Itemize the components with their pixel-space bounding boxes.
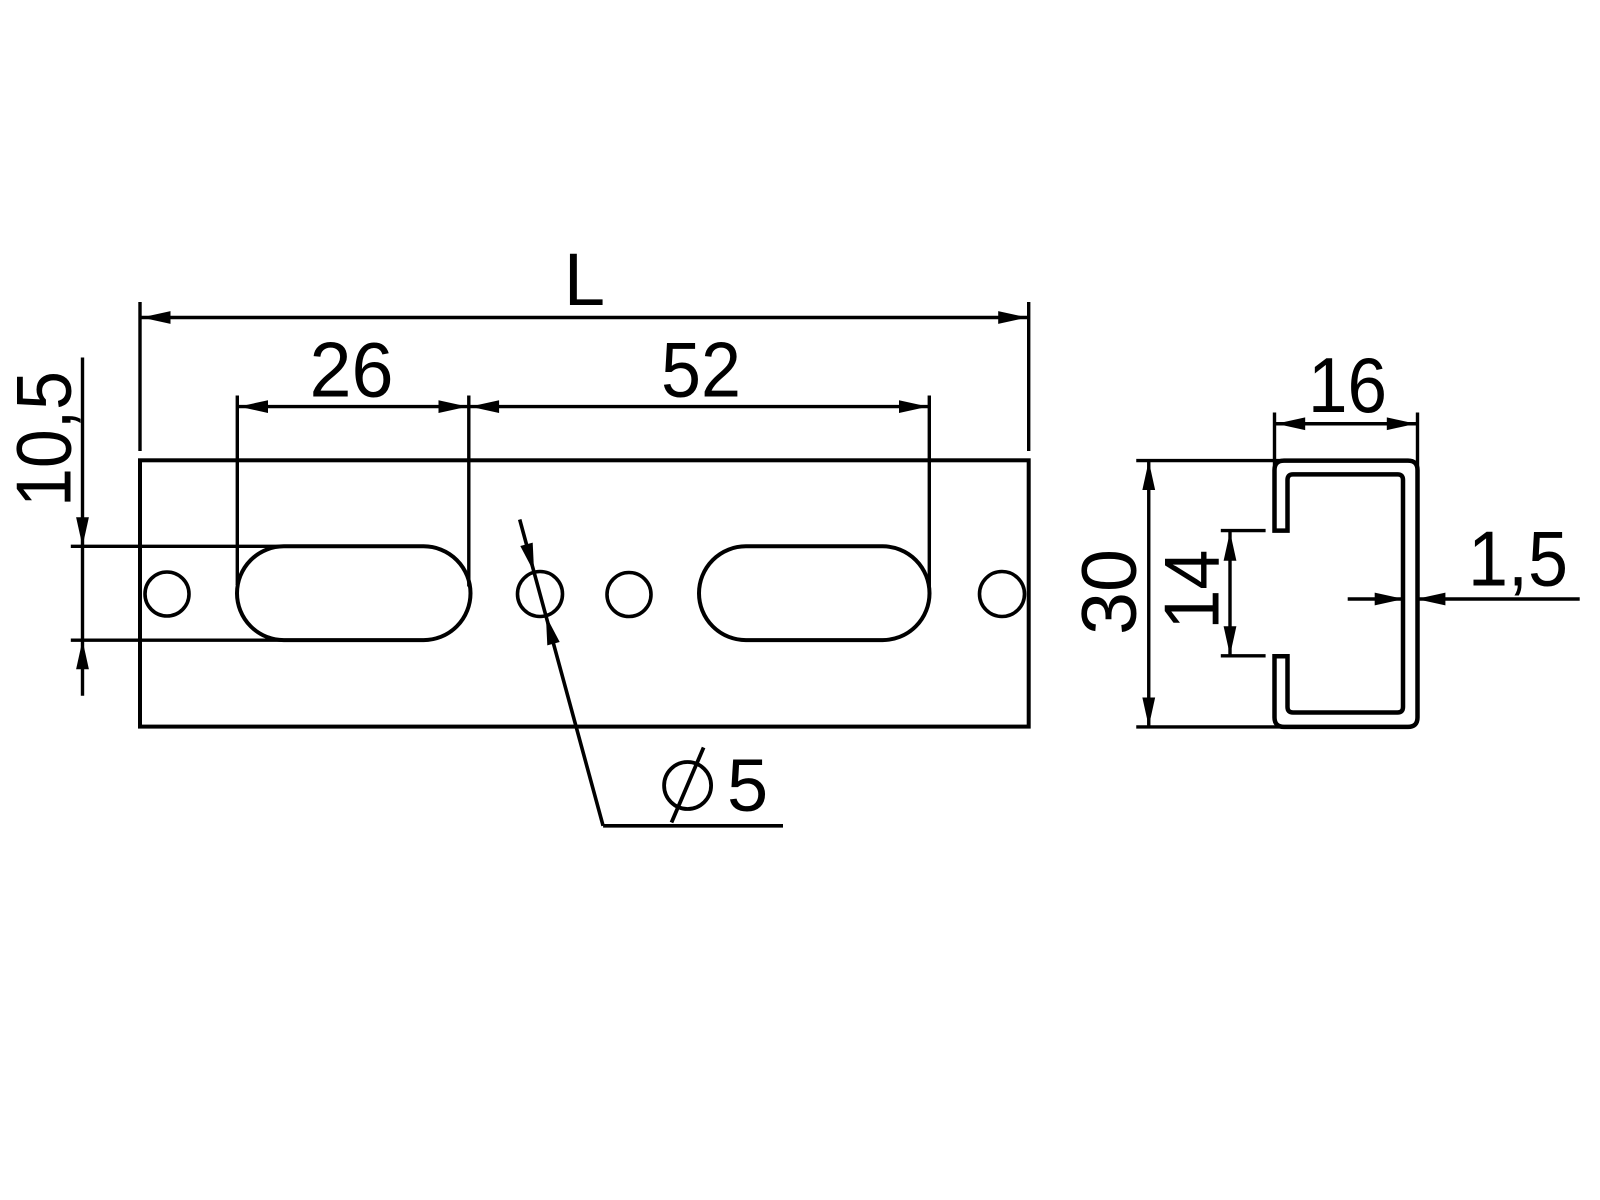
dimension 52: right extension line <box>928 396 931 587</box>
section view: C-channel profile outline <box>1275 461 1418 727</box>
hole, round, right end <box>980 572 1025 617</box>
dimension 30: bottom extension line <box>1136 725 1290 728</box>
hole, round, left end <box>145 572 189 616</box>
dimension 14: bottom extension line <box>1221 654 1266 657</box>
dimension 26: right arrowhead <box>439 400 468 413</box>
dimension 26: left extension line <box>236 396 239 586</box>
svg-text:16: 16 <box>1308 341 1387 429</box>
slot 1 (26 mm obround) <box>237 546 471 640</box>
dimension L: right arrowhead <box>998 311 1027 324</box>
diameter 5 callout: leader line through hole <box>520 520 603 826</box>
dimension L: left extension line <box>138 302 141 451</box>
dimension 30: lower arrowhead <box>1142 698 1155 727</box>
dimension 30: top extension line <box>1136 459 1289 462</box>
dimension 1,5: left arrowhead <box>1375 593 1404 606</box>
dimension 1,5: right arrowhead <box>1416 593 1445 606</box>
diameter 5 callout: diameter symbol circle <box>664 762 711 809</box>
dimension 10,5: bottom extension line <box>71 639 284 642</box>
front view: rail body outline <box>140 460 1029 726</box>
slot 2 (obround) <box>699 546 930 640</box>
dimension 10,5: lower arrowhead <box>76 640 89 669</box>
dimension 14: lower arrowhead <box>1224 626 1237 655</box>
diameter 5 callout: upper arrowhead <box>520 543 534 573</box>
dimension 52: left arrowhead <box>470 400 499 413</box>
diameter 5 callout: horizontal landing line <box>603 824 783 828</box>
dimension 16: left extension line <box>1273 413 1276 473</box>
dimension 10,5: dimension line <box>81 358 84 696</box>
dimension 26: dimension line <box>239 405 469 408</box>
diameter 5 callout: lower arrowhead <box>546 616 560 646</box>
dimension L: left arrowhead <box>142 311 171 324</box>
dimension 16: dimension line <box>1276 422 1416 425</box>
hole, round, middle <box>607 573 651 617</box>
svg-text:5: 5 <box>727 744 768 827</box>
dimension 14: dimension line <box>1228 532 1231 656</box>
dimension 52: dimension line <box>469 405 928 408</box>
dimension 1,5: outer tail line <box>1417 597 1580 600</box>
dimension L: dimension line <box>142 316 1028 319</box>
dimension 10,5: upper arrowhead <box>76 517 89 546</box>
dimension 10,5: top extension line <box>71 545 284 548</box>
svg-text:10,5: 10,5 <box>0 371 88 507</box>
dimension 14: top extension line <box>1221 529 1266 532</box>
svg-text:1,5: 1,5 <box>1468 515 1568 603</box>
dimension 14: upper arrowhead <box>1224 532 1237 561</box>
dimension 16: right arrowhead <box>1387 417 1416 430</box>
dimension 26: left arrowhead <box>239 400 268 413</box>
dimension 16: right extension line <box>1416 413 1419 473</box>
svg-text:30: 30 <box>1065 549 1153 635</box>
dimension 30: dimension line <box>1147 462 1150 726</box>
dimension 52: right arrowhead <box>899 400 928 413</box>
svg-text:52: 52 <box>661 326 741 414</box>
dimension 16: left arrowhead <box>1276 417 1305 430</box>
dimension 1,5: inner tail line <box>1348 597 1403 600</box>
svg-text:L: L <box>564 238 605 321</box>
diameter 5 callout: diameter symbol slash <box>672 748 704 823</box>
dimension 26/52: shared extension line <box>467 396 470 587</box>
svg-text:14: 14 <box>1148 550 1236 630</box>
svg-text:26: 26 <box>310 326 394 414</box>
hole diameter 5 <box>518 572 563 617</box>
dimension L: right extension line <box>1027 302 1030 451</box>
dimension 30: upper arrowhead <box>1142 461 1155 490</box>
